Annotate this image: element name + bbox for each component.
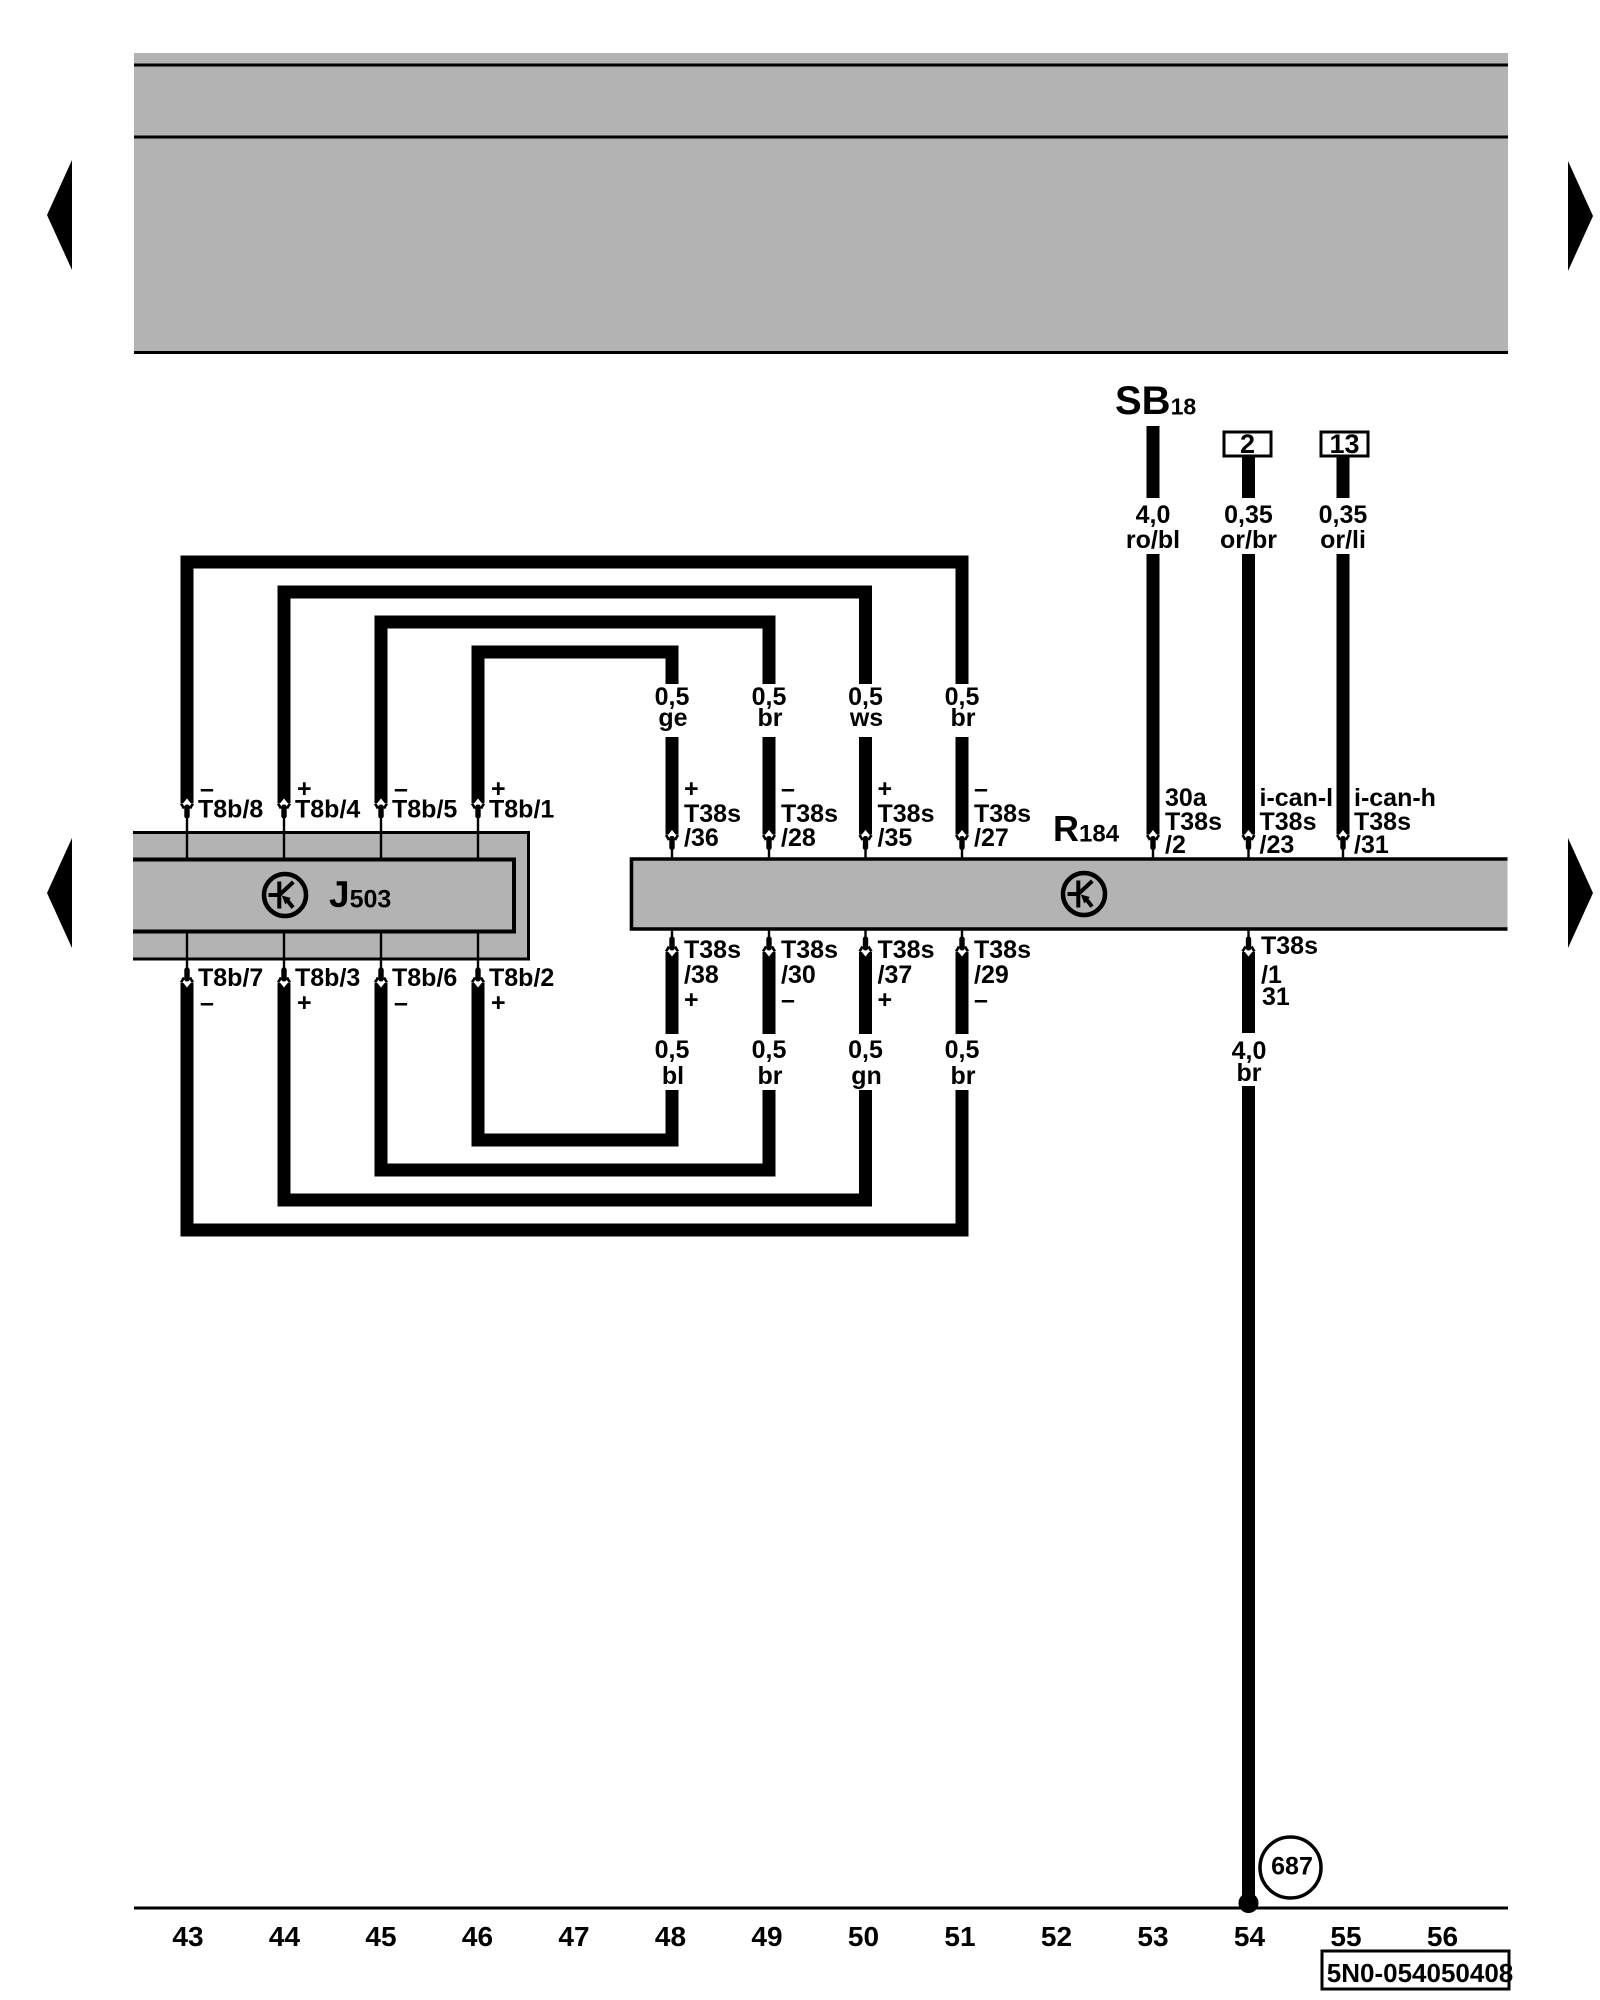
svg-text:T38s: T38s xyxy=(974,936,1031,964)
svg-text:0,5: 0,5 xyxy=(655,1036,690,1064)
svg-text:T8b/7: T8b/7 xyxy=(198,964,263,992)
svg-text:54: 54 xyxy=(1234,1921,1266,1952)
svg-text:47: 47 xyxy=(558,1921,589,1952)
svg-text:T38s: T38s xyxy=(878,936,935,964)
svg-text:2: 2 xyxy=(1240,429,1255,459)
svg-text:46: 46 xyxy=(462,1921,493,1952)
svg-text:0,35: 0,35 xyxy=(1224,501,1273,529)
svg-text:T8b/4: T8b/4 xyxy=(295,796,360,824)
svg-text:31: 31 xyxy=(1262,983,1290,1011)
svg-text:ge: ge xyxy=(658,704,687,732)
svg-text:/28: /28 xyxy=(781,824,816,852)
svg-text:0,5: 0,5 xyxy=(752,1036,787,1064)
svg-text:+: + xyxy=(491,989,506,1017)
svg-text:55: 55 xyxy=(1330,1921,1361,1952)
svg-text:53: 53 xyxy=(1137,1921,1168,1952)
svg-text:52: 52 xyxy=(1041,1921,1072,1952)
svg-text:br: br xyxy=(1237,1059,1262,1087)
svg-text:T38s: T38s xyxy=(1261,932,1318,960)
svg-text:/2: /2 xyxy=(1165,831,1186,859)
svg-text:50: 50 xyxy=(848,1921,879,1952)
svg-text:49: 49 xyxy=(751,1921,782,1952)
svg-text:48: 48 xyxy=(655,1921,686,1952)
svg-text:56: 56 xyxy=(1427,1921,1458,1952)
svg-text:+: + xyxy=(297,989,312,1017)
svg-text:T8b/1: T8b/1 xyxy=(489,796,554,824)
svg-text:+: + xyxy=(684,986,699,1014)
svg-text:–: – xyxy=(781,775,795,803)
svg-text:0,35: 0,35 xyxy=(1319,501,1368,529)
svg-text:687: 687 xyxy=(1271,1853,1313,1881)
svg-text:44: 44 xyxy=(269,1921,301,1952)
svg-text:br: br xyxy=(758,1062,783,1090)
svg-text:or/li: or/li xyxy=(1320,526,1366,554)
svg-text:–: – xyxy=(974,986,988,1014)
svg-text:5N0-054050408: 5N0-054050408 xyxy=(1327,1958,1514,1988)
svg-text:0,5: 0,5 xyxy=(848,1036,883,1064)
svg-text:T8b/8: T8b/8 xyxy=(198,796,263,824)
svg-text:/23: /23 xyxy=(1260,831,1295,859)
svg-text:br: br xyxy=(758,704,783,732)
svg-text:/37: /37 xyxy=(878,961,913,989)
svg-text:+: + xyxy=(684,775,699,803)
svg-text:–: – xyxy=(974,775,988,803)
svg-text:br: br xyxy=(951,704,976,732)
svg-text:T8b/5: T8b/5 xyxy=(392,796,457,824)
svg-text:br: br xyxy=(951,1062,976,1090)
svg-text:or/br: or/br xyxy=(1220,526,1277,554)
svg-text:45: 45 xyxy=(365,1921,396,1952)
svg-text:13: 13 xyxy=(1329,429,1359,459)
svg-text:43: 43 xyxy=(172,1921,203,1952)
svg-text:/31: /31 xyxy=(1354,831,1389,859)
svg-text:T8b/3: T8b/3 xyxy=(295,964,360,992)
svg-text:ws: ws xyxy=(849,704,883,732)
svg-text:+: + xyxy=(878,986,893,1014)
svg-text:+: + xyxy=(878,775,893,803)
svg-text:T38s: T38s xyxy=(781,936,838,964)
svg-text:0,5: 0,5 xyxy=(945,1036,980,1064)
svg-text:bl: bl xyxy=(662,1062,684,1090)
svg-text:ro/bl: ro/bl xyxy=(1126,526,1180,554)
svg-text:T8b/6: T8b/6 xyxy=(392,964,457,992)
svg-text:T8b/2: T8b/2 xyxy=(489,964,554,992)
svg-text:4,0: 4,0 xyxy=(1136,501,1171,529)
svg-text:–: – xyxy=(394,989,408,1017)
svg-text:/30: /30 xyxy=(781,961,816,989)
svg-text:/27: /27 xyxy=(974,824,1009,852)
svg-text:–: – xyxy=(200,989,214,1017)
svg-text:–: – xyxy=(781,986,795,1014)
svg-text:/29: /29 xyxy=(974,961,1009,989)
svg-text:T38s: T38s xyxy=(684,936,741,964)
svg-text:/36: /36 xyxy=(684,824,719,852)
svg-text:51: 51 xyxy=(944,1921,975,1952)
svg-text:/35: /35 xyxy=(878,824,913,852)
svg-text:gn: gn xyxy=(851,1062,882,1090)
svg-text:/38: /38 xyxy=(684,961,719,989)
